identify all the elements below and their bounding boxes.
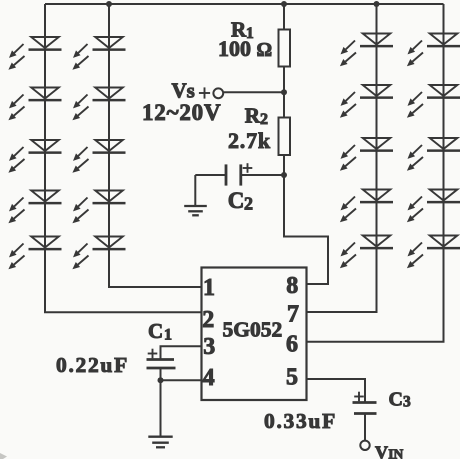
terminal Vs supply input 12~20V (142, 79, 284, 125)
LED D1 (8, 37, 61, 70)
resistor R2 2.7k (228, 104, 290, 155)
LED D11 (340, 34, 393, 67)
svg-text:5G052: 5G052 (223, 318, 283, 342)
LED D6 (72, 37, 125, 70)
LED D13 (340, 138, 393, 171)
svg-text:6: 6 (286, 332, 298, 358)
IC U1 5G052 (202, 268, 307, 401)
svg-text:C: C (228, 188, 245, 213)
wire LED column 1 to pin 2 (45, 4, 202, 312)
node rail/column3 junction (374, 1, 380, 7)
svg-text:0.22uF: 0.22uF (56, 353, 129, 377)
svg-text:3: 3 (203, 334, 215, 360)
svg-text:IN: IN (388, 446, 403, 459)
svg-text:Vs: Vs (172, 79, 195, 103)
node R2/C2 junction (281, 172, 287, 178)
LED D18 (407, 138, 460, 171)
LED D8 (72, 140, 125, 173)
svg-text:V: V (375, 442, 388, 459)
svg-text:2: 2 (244, 193, 253, 213)
LED D7 (72, 88, 125, 121)
LED D9 (72, 191, 125, 224)
wire LED column 2 to pin 1 (109, 4, 202, 287)
svg-text:8: 8 (286, 273, 298, 299)
svg-text:2: 2 (202, 307, 214, 333)
svg-text:4: 4 (203, 365, 215, 391)
svg-text:1: 1 (203, 275, 215, 301)
LED D4 (8, 191, 61, 224)
svg-text:C: C (148, 319, 163, 343)
svg-text:3: 3 (403, 394, 411, 411)
svg-text:2.7k: 2.7k (228, 128, 271, 153)
wire LED column 3 to pin 7 (307, 4, 377, 312)
node pin4/C1 junction (158, 377, 164, 383)
LED D3 (8, 140, 61, 173)
LED D12 (340, 85, 393, 118)
capacitor C2 (195, 163, 284, 213)
scan artifact bottom-left (0, 453, 7, 459)
wire LED column 4 to pin 6 (307, 4, 444, 342)
svg-text:1: 1 (164, 327, 172, 344)
LED D14 (340, 190, 393, 223)
ground for C2 (184, 206, 207, 215)
node rail/R1 junction (281, 1, 287, 7)
svg-text:2: 2 (260, 111, 268, 128)
LED D2 (8, 88, 61, 121)
LED D19 (407, 190, 460, 223)
svg-text:C: C (389, 389, 403, 411)
svg-text:12~20V: 12~20V (142, 100, 221, 125)
LED D5 (8, 237, 61, 270)
wire top supply rail (45, 3, 444, 5)
capacitor C3 0.33uF (264, 379, 411, 440)
LED D17 (407, 85, 460, 118)
capacitor C1 0.22uF (56, 319, 202, 437)
svg-text:7: 7 (287, 302, 299, 328)
svg-text:0.33uF: 0.33uF (264, 409, 337, 433)
LED D20 (407, 236, 460, 269)
LED D10 (72, 237, 125, 270)
svg-text:100 Ω: 100 Ω (218, 36, 272, 61)
svg-text:5: 5 (286, 365, 298, 391)
node Vs/R1/R2 junction (281, 89, 287, 95)
svg-text:R: R (245, 104, 261, 128)
node rail/column2 junction (106, 1, 112, 7)
terminal VIN signal input (360, 441, 403, 459)
wire R1/R2 branch from rail to pin 8 (284, 4, 328, 284)
resistor R1 100 ohm (218, 18, 290, 67)
LED D15 (340, 236, 393, 269)
LED D16 (407, 34, 460, 67)
ground for C1 (148, 437, 172, 448)
